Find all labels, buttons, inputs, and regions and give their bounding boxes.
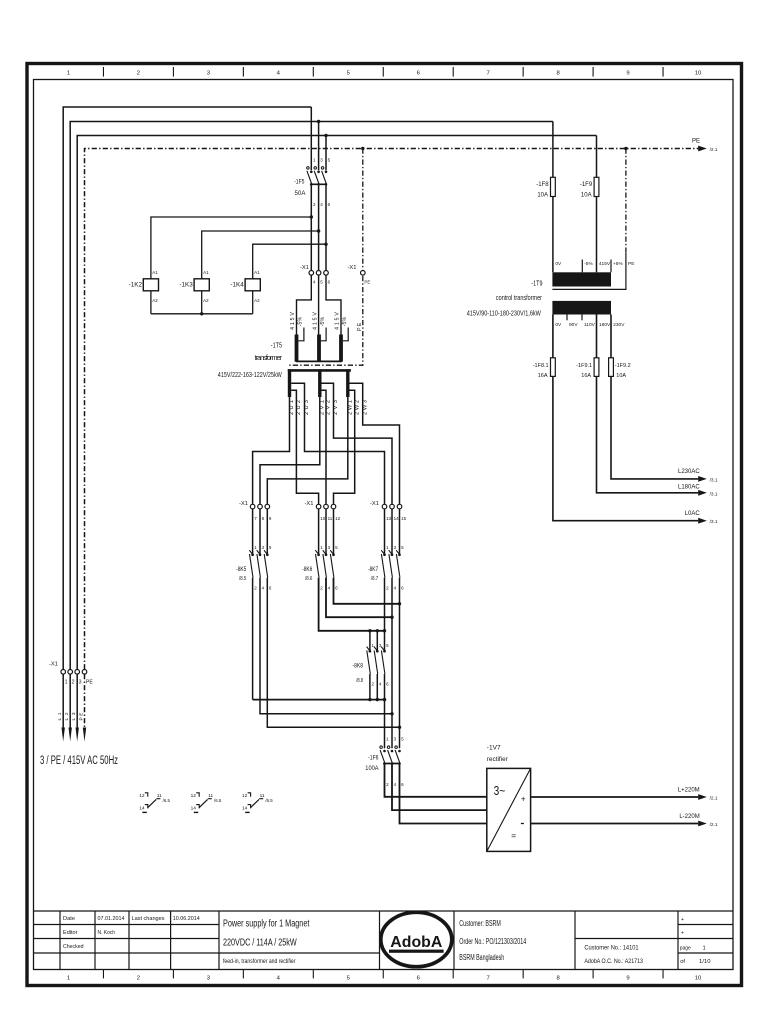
svg-text:180V: 180V xyxy=(599,322,611,328)
svg-text:L180AC: L180AC xyxy=(678,485,700,491)
svg-text:110V: 110V xyxy=(584,322,596,328)
svg-text:L+220M: L+220M xyxy=(678,787,700,793)
logo AdobA xyxy=(381,912,452,966)
column tick bottom 5|6 xyxy=(382,970,384,979)
wire -1K2 A2 down xyxy=(150,291,152,314)
wire 230V output xyxy=(611,315,698,479)
wire tap 2V3 xyxy=(322,383,393,504)
svg-text:-1K4: -1K4 xyxy=(230,282,244,289)
auxiliary contact 12-11-14 (/6.5) #3 xyxy=(242,793,273,813)
svg-text:2U3: 2U3 xyxy=(304,400,310,415)
svg-text:230V: 230V xyxy=(613,322,625,328)
svg-text:+5%: +5% xyxy=(613,261,623,267)
svg-text:/2.1: /2.1 xyxy=(710,822,718,828)
svg-text:PE: PE xyxy=(78,713,84,721)
column tick top 9|10 xyxy=(662,67,664,77)
svg-text:-X1: -X1 xyxy=(239,501,248,507)
auxiliary contact 12-11-14 (/6.5) #2 xyxy=(191,793,222,813)
svg-text:Customer No.: 14101: Customer No.: 14101 xyxy=(584,945,639,952)
terminal -X1:8 xyxy=(258,504,263,509)
node L3 to -1F5 pin5 xyxy=(324,134,327,137)
wire -8K5 pin2 run xyxy=(252,578,254,700)
svg-text:+: + xyxy=(521,794,526,803)
svg-text:9: 9 xyxy=(626,975,629,981)
svg-text:1/10: 1/10 xyxy=(699,959,711,965)
svg-text:L0AC: L0AC xyxy=(685,511,701,517)
svg-text:/8.5: /8.5 xyxy=(239,576,246,582)
node -1K4 feed tap xyxy=(324,243,327,246)
node -8K6 pin6 tie xyxy=(398,602,401,605)
column tick bottom 7|8 xyxy=(522,970,524,979)
node coil tie xyxy=(200,312,203,315)
svg-text:2V1: 2V1 xyxy=(320,400,326,415)
svg-text:0V: 0V xyxy=(555,261,562,267)
contactor -8K7 xyxy=(368,545,404,591)
title block table lines xyxy=(34,911,734,970)
fuse -1F8.1 16A xyxy=(551,358,556,377)
svg-text:AdobA: AdobA xyxy=(390,934,442,951)
svg-text:15: 15 xyxy=(401,516,407,521)
svg-text:/8.6: /8.6 xyxy=(305,576,312,582)
column tick top 2|3 xyxy=(172,67,174,77)
wire -8K7 pin4 down xyxy=(391,578,393,749)
svg-text:-X1: -X1 xyxy=(304,501,313,507)
terminal -X1:12 xyxy=(331,504,336,509)
wire PE feed (dash-dot) xyxy=(85,149,699,670)
svg-text:L230AC: L230AC xyxy=(678,469,700,475)
wire below -X1:12 xyxy=(333,509,335,555)
svg-text:-5%: -5% xyxy=(584,261,593,267)
svg-text:10: 10 xyxy=(695,975,702,981)
wire -1F6 pin2 to rectifier xyxy=(385,764,487,797)
svg-text:11: 11 xyxy=(208,793,213,799)
svg-text:11: 11 xyxy=(260,793,265,799)
svg-text:/3.1: /3.1 xyxy=(710,477,718,483)
node PE drop to -X1 PE xyxy=(361,147,364,150)
svg-text:=: = xyxy=(511,831,516,841)
terminal -X1:5 xyxy=(316,271,321,276)
wire tap 2W3 xyxy=(350,383,400,504)
svg-text:-1F9: -1F9 xyxy=(580,182,593,188)
wire L3 feed xyxy=(77,136,596,670)
svg-text:16A: 16A xyxy=(538,373,548,379)
wire tap 2V1 xyxy=(260,397,320,504)
wire tap 2V2 xyxy=(322,390,327,504)
svg-text:/6.5: /6.5 xyxy=(214,798,222,803)
wire below -X1:14 xyxy=(391,509,393,555)
svg-text:11: 11 xyxy=(328,516,333,521)
svg-text:Last changes: Last changes xyxy=(132,916,165,922)
column tick bottom 9|10 xyxy=(662,970,664,979)
svg-text:2: 2 xyxy=(137,71,140,77)
svg-text:1: 1 xyxy=(703,945,706,951)
svg-text:PE: PE xyxy=(692,139,700,145)
svg-text:/2.1: /2.1 xyxy=(710,796,718,802)
terminal -X1:9 xyxy=(265,504,270,509)
svg-text:3~: 3~ xyxy=(494,784,506,798)
svg-text:N. Koch: N. Koch xyxy=(98,930,116,936)
svg-text:3: 3 xyxy=(79,679,82,685)
column tick bottom 8|9 xyxy=(592,970,594,979)
wire PE (dash-dot) to shield xyxy=(288,276,362,365)
svg-text:-8K8: -8K8 xyxy=(352,663,363,670)
wire -8K5 pin4 run xyxy=(260,578,392,714)
svg-text:12: 12 xyxy=(335,516,341,521)
wire -8K8 bottom 384.5 xyxy=(384,674,386,700)
wire L1 to supply arrow xyxy=(62,674,64,731)
svg-text:/8.7: /8.7 xyxy=(371,576,378,582)
terminal -X1:15 xyxy=(397,504,402,509)
svg-text:AdobA O.C. No.: A21713: AdobA O.C. No.: A21713 xyxy=(584,958,643,965)
column tick top 3|4 xyxy=(242,67,244,77)
svg-text:2W3: 2W3 xyxy=(362,400,368,415)
column tick bottom 2|3 xyxy=(172,970,174,979)
svg-text:9: 9 xyxy=(626,71,629,77)
svg-text:of: of xyxy=(680,959,685,965)
svg-text:transformer: transformer xyxy=(255,353,283,362)
transformer -1T5 primary windings xyxy=(290,312,348,362)
svg-text:1: 1 xyxy=(67,975,70,981)
fuse-switch -1F5 50A xyxy=(294,157,331,207)
svg-text:/6.5: /6.5 xyxy=(163,798,171,803)
wire L3 to supply arrow xyxy=(76,674,78,731)
wire -1F5 pin2 down xyxy=(310,185,312,271)
node rail 3 xyxy=(383,698,386,701)
terminal -X1:4 xyxy=(309,271,314,276)
wire -1F5 pin5 drop xyxy=(325,136,327,171)
svg-text:12: 12 xyxy=(191,793,197,799)
wire below -X1:15 xyxy=(399,509,401,555)
svg-text:/2.1: /2.1 xyxy=(710,147,718,153)
wire below -X1:7 xyxy=(252,509,254,555)
wire L+220M output xyxy=(531,796,699,798)
svg-text:-1K3: -1K3 xyxy=(179,282,193,289)
svg-text:2: 2 xyxy=(72,679,75,685)
svg-text:415V: 415V xyxy=(290,312,296,330)
wire below -X1:9 xyxy=(266,509,268,555)
svg-text:415V/90-110-180-230V/1,6kW: 415V/90-110-180-230V/1,6kW xyxy=(467,309,541,318)
terminal -X1:1 bottom xyxy=(61,670,66,675)
wire tap 2U3 xyxy=(291,383,384,504)
svg-text:-1F9.2: -1F9.2 xyxy=(615,363,631,369)
svg-text:-8K6: -8K6 xyxy=(302,566,313,573)
svg-text:90V: 90V xyxy=(569,322,578,328)
wire -8K8 bottom rail xyxy=(253,699,385,701)
wire -8K8 pin3 top xyxy=(376,631,378,651)
svg-text:A2: A2 xyxy=(152,298,158,303)
svg-text:14: 14 xyxy=(242,806,248,812)
svg-text:control transformer: control transformer xyxy=(496,293,543,302)
svg-text:10: 10 xyxy=(695,71,702,77)
supply arrow PE xyxy=(83,728,86,742)
svg-text:10A: 10A xyxy=(537,193,548,199)
node -1K3 feed tap xyxy=(317,229,320,232)
coil -1K2 xyxy=(129,270,159,303)
arrow L180AC xyxy=(698,490,707,496)
wire 180V output xyxy=(597,315,699,493)
supply arrow L2 xyxy=(69,728,72,742)
terminal -X1:13 xyxy=(382,504,387,509)
wire -1K4 coil feed xyxy=(253,244,326,279)
svg-text:12: 12 xyxy=(242,793,248,799)
svg-text:-8K5: -8K5 xyxy=(236,566,247,573)
svg-text:13: 13 xyxy=(386,516,392,521)
column tick top 1|2 xyxy=(102,67,104,77)
svg-text:-1T9: -1T9 xyxy=(531,278,542,287)
wire -8K8 bottom 369.9 xyxy=(369,674,371,700)
supply arrow L1 xyxy=(62,728,65,742)
auxiliary contact 12-11-14 (/6.5) #1 xyxy=(139,793,170,813)
column tick bottom 4|5 xyxy=(312,970,314,979)
node -8K8 rail pin1 xyxy=(368,629,371,632)
wire -8K6 pin4 tie xyxy=(326,578,392,618)
svg-text:16A: 16A xyxy=(581,373,591,379)
svg-text:-X1: -X1 xyxy=(49,662,58,668)
svg-text:415V: 415V xyxy=(599,261,611,267)
svg-text:L-220M: L-220M xyxy=(679,814,699,820)
column tick bottom 6|7 xyxy=(452,970,454,979)
svg-text:10A: 10A xyxy=(581,193,592,199)
svg-text:2W2: 2W2 xyxy=(354,400,360,415)
svg-text:220VDC / 114A / 25kW: 220VDC / 114A / 25kW xyxy=(223,938,297,949)
svg-text:10.06.2014: 10.06.2014 xyxy=(173,916,201,922)
svg-text:1: 1 xyxy=(67,71,70,77)
node pin4 run joins xyxy=(390,712,393,715)
wire tap 2U2 xyxy=(291,390,318,504)
wire -8K6 pin6 tie xyxy=(334,578,400,604)
wire -1F8 drop xyxy=(552,122,554,273)
wire -1F5 pin6 down xyxy=(325,185,327,271)
title block: customer cell xyxy=(459,919,526,962)
wire -1K2 coil feed xyxy=(151,217,311,279)
wire L-220M output xyxy=(531,823,699,825)
wire -1F5 pin1 drop xyxy=(310,107,312,170)
contactor -8K6 xyxy=(302,545,338,591)
svg-text:-X1: -X1 xyxy=(300,265,309,271)
wire 0V output xyxy=(553,315,698,521)
terminal -X1:PE xyxy=(361,271,366,276)
svg-text:Checked: Checked xyxy=(63,944,84,950)
wire L1 feed xyxy=(63,107,311,669)
wire -8K8 pin1 top xyxy=(369,631,371,651)
supply arrow L3 xyxy=(76,728,79,742)
svg-text:Power supply for 1 Magnet: Power supply for 1 Magnet xyxy=(223,918,310,929)
wire -X1:4 to -1T5 winding U xyxy=(297,275,312,334)
svg-text:11: 11 xyxy=(157,793,162,799)
svg-text:7: 7 xyxy=(487,71,490,77)
arrow L0AC xyxy=(698,518,707,524)
terminal -X1:14 xyxy=(390,504,395,509)
column tick bottom 1|2 xyxy=(102,970,104,979)
fuse -1F9 10A xyxy=(594,177,599,196)
svg-text:0V: 0V xyxy=(555,322,562,328)
wire L2 to supply arrow xyxy=(69,674,71,731)
svg-text:A2: A2 xyxy=(203,298,209,303)
node pin6 run joins xyxy=(398,726,401,729)
svg-text:Customer: BSRM: Customer: BSRM xyxy=(459,919,501,928)
svg-text:/3.1: /3.1 xyxy=(710,491,718,497)
node -1K2 feed tap xyxy=(310,215,313,218)
svg-text:-5%: -5% xyxy=(342,317,348,327)
inner frame xyxy=(34,80,734,970)
svg-text:12: 12 xyxy=(139,793,145,799)
svg-text:3 / PE / 415V AC 50Hz: 3 / PE / 415V AC 50Hz xyxy=(40,755,118,767)
svg-text:rectifier: rectifier xyxy=(487,756,509,763)
svg-text:07.01.2014: 07.01.2014 xyxy=(98,916,126,922)
svg-text:-1K2: -1K2 xyxy=(129,282,143,289)
svg-text:415V/222-163-122V/25kW: 415V/222-163-122V/25kW xyxy=(218,370,282,379)
fuse -1F9.2 10A xyxy=(609,358,614,377)
node rail 1 xyxy=(368,698,371,701)
svg-text:14: 14 xyxy=(139,806,145,812)
wire tap 2W1 xyxy=(267,397,348,504)
svg-text:+: + xyxy=(681,917,684,923)
svg-text:14: 14 xyxy=(394,516,400,521)
svg-text:-X1: -X1 xyxy=(347,265,356,271)
coil -1K3 xyxy=(179,270,209,303)
column tick top 5|6 xyxy=(382,67,384,77)
terminal -X1:11 xyxy=(324,504,329,509)
svg-text:Editor: Editor xyxy=(63,930,78,936)
svg-text:A2: A2 xyxy=(254,298,260,303)
node -8K6 pin4 tie xyxy=(390,616,393,619)
svg-text:PE: PE xyxy=(357,322,363,331)
svg-text:/6.5: /6.5 xyxy=(265,798,273,803)
fuse -1F9.1 16A xyxy=(594,358,599,377)
wire PE to supply arrow xyxy=(84,674,86,731)
svg-text:14: 14 xyxy=(191,806,197,812)
svg-text:-1F8.1: -1F8.1 xyxy=(533,363,549,369)
terminal -X1:6 xyxy=(324,271,329,276)
terminal -X1:2 bottom xyxy=(68,670,73,675)
svg-text:-8K7: -8K7 xyxy=(368,566,379,573)
svg-text:-1T5: -1T5 xyxy=(271,340,282,349)
fuse-switch -1F6 100A xyxy=(365,737,404,787)
terminal -X1:10 xyxy=(316,504,321,509)
svg-text:2U1: 2U1 xyxy=(289,400,295,415)
wire -1F9 drop xyxy=(596,136,598,273)
wire -8K8 bottom 377.3 xyxy=(376,674,378,700)
column tick top 6|7 xyxy=(452,67,454,77)
svg-text:A1: A1 xyxy=(152,270,158,275)
svg-text:2V2: 2V2 xyxy=(326,400,332,415)
wire -8K6 pin2 tie xyxy=(319,578,385,631)
contactor -8K8 xyxy=(352,643,389,686)
svg-text:415V: 415V xyxy=(313,312,319,330)
svg-text:PE: PE xyxy=(628,261,634,267)
svg-text:Date: Date xyxy=(63,916,75,922)
column tick bottom 3|4 xyxy=(242,970,244,979)
wire below -X1:8 xyxy=(259,509,261,555)
node L2 to -1F5 pin3 xyxy=(317,120,320,123)
control transformer -1T9 xyxy=(467,253,635,328)
arrow L230AC xyxy=(698,476,707,482)
wire -8K7 pin6 down xyxy=(399,578,401,749)
wire below -X1:10 xyxy=(318,509,320,555)
title block: numbers cell xyxy=(584,945,643,966)
rectifier -1V7 xyxy=(487,745,531,852)
svg-text:PE: PE xyxy=(86,679,93,685)
wire -1F5 pin4 down xyxy=(318,185,320,271)
wire -1K4 A2 down xyxy=(252,291,254,314)
svg-text:-1F5: -1F5 xyxy=(294,178,305,185)
wire -1K3 coil feed xyxy=(202,231,319,279)
coil -1K4 xyxy=(230,270,260,303)
transformer -1T5 secondary windings xyxy=(288,369,351,397)
svg-text:10A: 10A xyxy=(616,373,626,379)
svg-text:-5%: -5% xyxy=(320,317,326,327)
svg-text:2V3: 2V3 xyxy=(333,400,339,415)
svg-text:7: 7 xyxy=(487,975,490,981)
node rail 2 xyxy=(376,698,379,701)
terminal -X1:PE bottom xyxy=(82,670,87,675)
svg-text:1: 1 xyxy=(65,679,68,685)
svg-text:-1F9.1: -1F9.1 xyxy=(576,363,592,369)
svg-text:2W1: 2W1 xyxy=(348,400,354,415)
svg-text:415V: 415V xyxy=(335,312,341,330)
title block: page cell xyxy=(680,917,711,965)
svg-text:BSRM Bangladesh: BSRM Bangladesh xyxy=(459,953,504,962)
svg-text:-1F6: -1F6 xyxy=(368,755,379,762)
node -8K8 rail pin5 xyxy=(383,629,386,632)
column tick top 7|8 xyxy=(522,67,524,77)
title block: date/editor rows xyxy=(63,916,201,950)
svg-text:/3.1: /3.1 xyxy=(710,519,718,525)
column tick top 4|5 xyxy=(312,67,314,77)
PE arrow to /2.1 xyxy=(698,146,707,152)
wire below -X1:13 xyxy=(384,509,386,555)
wire -X1:5 to -1T5 winding V xyxy=(318,275,320,334)
wire PE drop (dash-dot) to -1T9 xyxy=(625,149,627,254)
wire tap 2W2 xyxy=(334,390,355,504)
terminal -X1:3 bottom xyxy=(75,670,80,675)
svg-text:-1F8: -1F8 xyxy=(536,182,549,188)
svg-text:/8.8: /8.8 xyxy=(356,678,363,684)
svg-text:-1V7: -1V7 xyxy=(487,745,501,752)
wire -X1:6 to -1T5 winding W xyxy=(326,275,341,334)
svg-text:A1: A1 xyxy=(254,270,260,275)
wire -1F5 pin3 drop xyxy=(318,122,320,171)
svg-text:2U2: 2U2 xyxy=(296,400,302,415)
terminal -X1:7 xyxy=(250,504,255,509)
svg-text:A1: A1 xyxy=(203,270,209,275)
wire -1F6 pin4 to rectifier xyxy=(392,764,487,810)
wire -8K5 pin6 run xyxy=(267,578,399,728)
wire coil common tie xyxy=(151,313,253,315)
svg-text:100A: 100A xyxy=(365,765,379,772)
wire tap 2U1 xyxy=(253,397,290,504)
svg-text:-X1: -X1 xyxy=(370,501,379,507)
wire rail to -1F6 pin1 xyxy=(384,700,386,749)
svg-text:+: + xyxy=(681,931,684,937)
fuse -1F8 10A xyxy=(551,177,556,196)
wire PE drop (dash-dot) to -X1 xyxy=(362,149,364,270)
svg-text:page: page xyxy=(680,945,691,951)
wire -8K7 pin2 down xyxy=(384,578,386,651)
svg-text:10: 10 xyxy=(320,516,326,521)
svg-text:Order No.: PO/121303/2014: Order No.: PO/121303/2014 xyxy=(459,937,526,946)
wire -1K3 A2 down xyxy=(201,291,203,314)
contactor -8K5 xyxy=(236,545,272,591)
node PE drop to -1T9 xyxy=(624,147,627,150)
title block: description xyxy=(223,918,310,965)
node -8K8 rail pin3 xyxy=(376,629,379,632)
svg-text:2: 2 xyxy=(137,975,140,981)
svg-text:PE: PE xyxy=(364,280,370,285)
svg-text:-5%: -5% xyxy=(298,317,304,327)
svg-text:feed-in, transformer and recti: feed-in, transformer and rectifier xyxy=(223,958,295,965)
svg-text:50A: 50A xyxy=(295,190,307,197)
